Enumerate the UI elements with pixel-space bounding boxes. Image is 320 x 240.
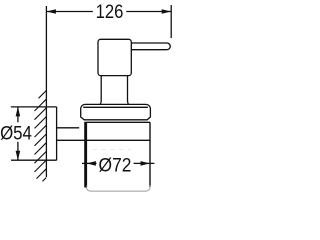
dimension 126 line left segment — [46, 11, 92, 13]
dimension 54 arrow down — [16, 151, 21, 161]
dimension 72 line right segment — [134, 162, 155, 164]
svg-text:126: 126 — [96, 2, 124, 23]
dimension 72 arrow left — [86, 161, 96, 166]
dimension 126 line right segment — [126, 11, 171, 13]
wall hatching — [35, 91, 47, 182]
wall surface line — [45, 6, 47, 177]
glass body — [86, 122, 150, 187]
glass body left edge (thicker) — [84, 122, 86, 188]
svg-text:Ø54: Ø54 — [0, 123, 32, 144]
svg-text:Ø72: Ø72 — [99, 156, 132, 177]
pump head — [98, 39, 131, 75]
dispenser cap outline — [81, 104, 151, 119]
dimension 54 vertical line lower segment — [17, 142, 19, 160]
faint fill-level marks — [92, 149, 131, 151]
holder arm top edge — [57, 127, 80, 129]
plate top edge + dim 54 top extension line — [11, 106, 57, 108]
dimension 126 arrow right — [162, 9, 172, 14]
dimension 72 line left overrun — [82, 162, 97, 164]
dimension 72 arrow right — [141, 161, 151, 166]
pump neck right edge — [128, 76, 130, 105]
pump spout — [131, 43, 170, 50]
plate bottom edge + dim 54 bottom extension line — [11, 159, 57, 161]
dimension 126 extension line right — [170, 5, 172, 38]
dimension 54 arrow up — [16, 107, 21, 117]
dimension 54 vertical line upper segment — [17, 107, 19, 122]
pump neck left edge — [100, 76, 102, 105]
glass body bottom edge (lighter) — [86, 185, 150, 191]
holder arm bottom edge / ring bottom across bottle — [57, 139, 151, 141]
mounting plate — [56, 107, 58, 160]
dispenser cap inner rim line — [83, 106, 148, 108]
dimension 126 arrow left — [46, 9, 56, 14]
